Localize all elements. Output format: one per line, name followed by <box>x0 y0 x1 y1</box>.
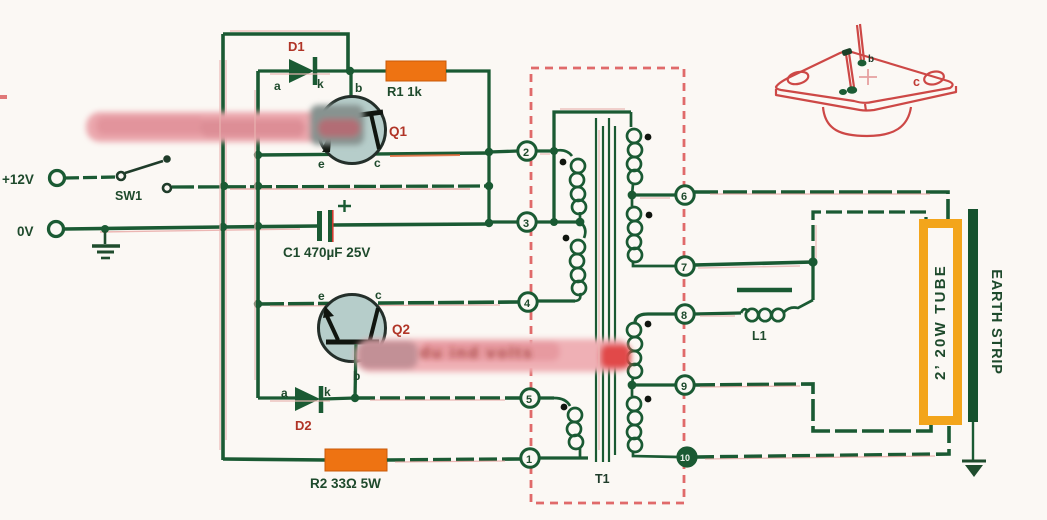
wire: R2 to terminal 1 <box>387 459 520 460</box>
terminal 3 <box>518 213 536 231</box>
node: phase dot winding S2 <box>646 212 653 219</box>
terminal 0V <box>49 222 64 237</box>
terminal 6 <box>676 186 694 204</box>
terminal 7 <box>676 257 694 275</box>
svg-text:b: b <box>868 54 874 65</box>
resistor R2 <box>325 449 387 471</box>
node: D2/Q2-base junction <box>351 394 359 402</box>
wire: top rail to D1 cathode junction <box>223 34 348 71</box>
svg-text:a: a <box>274 79 281 93</box>
wire: earth strip to ground <box>972 422 974 460</box>
wire: stub to terminal 6 <box>632 193 676 196</box>
wire: terminal 5 stub <box>539 396 554 399</box>
svg-text:c: c <box>374 156 381 170</box>
svg-text:c: c <box>913 75 920 89</box>
wire: terminal 3 rail <box>537 220 580 223</box>
transistor package TO-3 <box>776 24 956 136</box>
node: phase dot winding S1 <box>645 134 652 141</box>
node: 0V rail x223 <box>219 223 227 231</box>
terminal 2 <box>518 142 536 160</box>
wire: Q2 emitter-collector rail to terminal 4 <box>258 302 519 304</box>
terminal 1 <box>521 449 539 467</box>
terminal 8 <box>676 305 694 323</box>
svg-text:e: e <box>318 157 325 171</box>
ground <box>92 231 120 258</box>
wire: D2 anode branch <box>258 396 296 399</box>
winding P1 (pins 2-3) <box>554 150 586 222</box>
svg-text:+12V: +12V <box>2 172 34 187</box>
svg-text:10: 10 <box>680 453 690 463</box>
terminal 4 <box>519 293 537 311</box>
node: 0V rail x258 <box>254 222 262 230</box>
wire: +12V input lead <box>65 177 116 178</box>
terminal 10 <box>678 448 696 466</box>
diode D1 <box>289 57 350 85</box>
svg-text:SW1: SW1 <box>115 189 142 203</box>
winding FB (pins 5-1) <box>554 398 583 458</box>
svg-text:2: 2 <box>523 147 529 159</box>
svg-text:e: e <box>318 289 325 303</box>
winding S2 <box>627 195 676 266</box>
svg-text:R2 33Ω 5W: R2 33Ω 5W <box>310 476 381 491</box>
svg-text:D2: D2 <box>295 418 312 433</box>
node: phase dot winding P1 <box>560 159 567 166</box>
svg-text:R1 1k: R1 1k <box>387 84 422 99</box>
wire: stub to terminal 2 <box>489 151 518 152</box>
node: terminal 9 junction <box>628 381 637 390</box>
node: T7/L1 junction <box>808 257 817 266</box>
wire: bottom rail to R2 <box>223 459 326 460</box>
fluorescent tube <box>924 224 958 421</box>
wire: bus from terminal2 junction down to terminal3 rail <box>552 151 555 222</box>
wire: terminal 6 to tube top right pin <box>694 192 948 222</box>
svg-text:5: 5 <box>526 394 532 406</box>
svg-text:6: 6 <box>681 191 687 203</box>
node: T3 rail x554 <box>550 218 558 226</box>
svg-text:0V: 0V <box>17 224 34 239</box>
svg-text:k: k <box>317 77 324 91</box>
wire: stub to terminal 9 <box>632 383 675 386</box>
svg-text:b: b <box>353 369 360 383</box>
transistor Q2 <box>319 295 386 362</box>
node: phase dot winding FB <box>561 404 568 411</box>
terminal +12V <box>50 171 65 186</box>
watermark streak 1 <box>86 105 364 145</box>
svg-text:T1: T1 <box>595 472 610 486</box>
svg-text:7: 7 <box>681 262 687 274</box>
watermark streak 2 <box>355 339 631 372</box>
wire: L1 to T7 junction <box>811 262 814 300</box>
node: rail x258 y155 <box>254 151 262 159</box>
capacitor C1 <box>317 200 351 242</box>
svg-text:Q1: Q1 <box>389 124 408 139</box>
diode D2 <box>295 386 355 413</box>
wire: terminal 9 to tube bottom left pin <box>693 384 931 431</box>
svg-text:9: 9 <box>681 381 687 393</box>
terminal 9 <box>676 376 694 394</box>
node: terminal 6 junction <box>628 191 637 200</box>
wire: junction to R1 <box>350 69 386 72</box>
wire: terminal 10 to tube bottom right pin <box>696 426 949 457</box>
earth strip <box>968 209 978 422</box>
wire: terminal 8 to L1 <box>694 313 741 314</box>
node: rail x258 y304 <box>254 300 262 308</box>
wire: Q1 base lead <box>349 71 352 98</box>
svg-text:du ind volts: du ind volts <box>420 345 534 362</box>
svg-text:4: 4 <box>524 298 531 310</box>
node: bus x489 y186 <box>485 182 493 190</box>
winding S3 <box>627 323 642 385</box>
resistor R1 <box>386 61 446 81</box>
ground (earth strip) <box>962 461 986 477</box>
wire: Q2 base lead <box>355 344 356 398</box>
node: phase dot winding P2 <box>563 235 570 242</box>
svg-text:Q2: Q2 <box>392 322 410 337</box>
node: D1/R1/Q1-base junction <box>346 67 354 75</box>
svg-text:b: b <box>355 81 362 95</box>
svg-text:C1 470µF 25V: C1 470µF 25V <box>283 245 370 260</box>
node: bus x489 y223 <box>485 219 493 227</box>
scan fringes <box>220 31 816 450</box>
svg-text:EARTH STRIP: EARTH STRIP <box>988 269 1004 374</box>
node: phase dot winding S4 <box>645 396 652 403</box>
svg-text:D1: D1 <box>288 39 305 54</box>
node: SW1 rail x258 <box>254 182 262 190</box>
svg-text:a: a <box>281 386 288 400</box>
svg-text:c: c <box>375 288 382 302</box>
wire: terminal 8 stub to winding S3 <box>635 314 676 322</box>
wire: terminal 7 rail <box>694 262 813 265</box>
pin solder dots TO-3 <box>841 48 852 57</box>
transistor Q1 <box>319 97 386 164</box>
wire: junction up and across to tube top left pin <box>813 212 926 262</box>
wire: Q1 emitter-collector rail <box>258 153 489 155</box>
svg-text:1: 1 <box>526 454 532 466</box>
watermark handwriting fragment <box>420 345 534 362</box>
svg-text:8: 8 <box>681 310 687 322</box>
transformer core <box>596 118 615 462</box>
switch SW1 <box>117 155 171 192</box>
winding S4 <box>627 385 678 457</box>
node: 0V-ground junction <box>101 225 109 233</box>
svg-text:L1: L1 <box>752 329 767 343</box>
node: SW1 rail x223 <box>220 182 228 190</box>
wire: stub to terminal 3 <box>489 220 518 223</box>
node: terminal 2 junction <box>550 147 558 155</box>
wire: R1 to right vertical bus <box>446 71 489 224</box>
svg-text:3: 3 <box>523 218 529 230</box>
winding S1 (top right) <box>627 112 642 195</box>
inductor L1 core bar <box>737 288 792 293</box>
wire: terminal 1 stub <box>539 456 588 459</box>
wire: D2 junction to terminal 5 <box>355 396 520 400</box>
scan mark left edge <box>0 95 7 99</box>
wire: inner left vertical bus <box>256 71 260 398</box>
wire: 0V rail to C1 and terminal 3 <box>64 226 318 229</box>
wire: SW1 to left bus <box>172 186 489 187</box>
node: phase dot winding S3 <box>645 321 652 328</box>
svg-text:2’ 20W TUBE: 2’ 20W TUBE <box>932 264 949 380</box>
wire: terminal 2 stub and top rail <box>537 112 631 151</box>
terminal 5 <box>521 389 539 407</box>
wire: left outer vertical bus <box>221 34 225 460</box>
winding P2 (pins 3-4) <box>570 222 586 301</box>
inductor L1 <box>741 300 813 321</box>
node: T3 rail x580 <box>576 218 585 227</box>
svg-text:k: k <box>324 385 331 399</box>
wire: D1 anode branch <box>258 69 290 72</box>
transformer T1 dashed outline <box>531 68 684 503</box>
node: bus x489 y152 <box>485 148 493 156</box>
wire: terminal 4 stub <box>538 299 575 302</box>
